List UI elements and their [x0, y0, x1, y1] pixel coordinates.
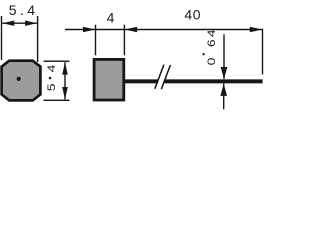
dim 5.4 height: top extension line	[44, 60, 70, 62]
octagonal head, front view	[2, 61, 41, 101]
dim 5.4 width: left arrowhead	[2, 21, 14, 26]
pin, left segment	[124, 79, 158, 83]
dim 5.4 height: dimension line	[64, 62, 66, 99]
dim 0.64 pin dia: lower leader line	[223, 84, 225, 110]
dim 0.64 pin dia: upper leader line	[223, 34, 225, 79]
svg-text:0: 0	[205, 58, 217, 66]
dim 5.4 height: down arrowhead	[62, 87, 68, 100]
dim 5.4 height: up arrowhead	[62, 62, 68, 75]
pin tip dot, front view	[17, 77, 21, 81]
dim 5.4 width: right arrowhead	[25, 21, 37, 26]
dim 5.4 width: dimension line	[2, 22, 37, 24]
dim 0.64 pin dia: up arrowhead	[220, 84, 227, 96]
dim 4 head length: left extension line	[95, 25, 97, 56]
svg-text:4: 4	[107, 9, 115, 25]
svg-text:5: 5	[45, 83, 57, 91]
dim 0.64 pin dia: down arrowhead	[221, 67, 228, 79]
dim 40: right extension line	[262, 29, 264, 75]
dim 4: left outside arrowhead	[83, 27, 95, 33]
break symbol slash 2	[161, 65, 170, 89]
svg-text:6: 6	[205, 39, 217, 47]
dim 4 head length: right extension line	[123, 25, 125, 56]
svg-text:4: 4	[205, 29, 217, 37]
dim 40: right arrowhead	[250, 27, 262, 33]
break symbol slash 1	[155, 65, 164, 89]
dim 5.4 height: bottom extension line	[44, 99, 70, 101]
dim 4 / dim 40 shared dimension line	[65, 29, 262, 31]
svg-text:4: 4	[45, 65, 57, 73]
svg-text:40: 40	[184, 6, 201, 22]
side view head (gray square)	[94, 59, 124, 100]
pin, right segment	[164, 79, 262, 83]
svg-text:5.4: 5.4	[9, 2, 39, 18]
dim 4 / dim 40: shared arrowhead at x124	[125, 27, 137, 33]
dim 5.4 width: right extension line	[37, 16, 39, 62]
dim 5.4 width: left extension line	[1, 16, 3, 60]
